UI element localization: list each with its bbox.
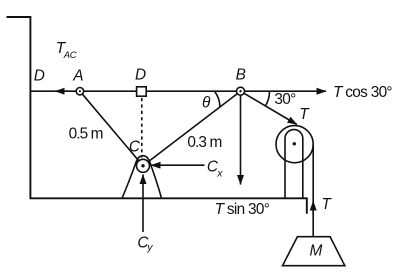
svg-text:x: x bbox=[216, 167, 223, 179]
support arch under C bbox=[122, 156, 162, 199]
svg-text:T sin 30°: T sin 30° bbox=[215, 201, 270, 218]
svg-text:30°: 30° bbox=[274, 91, 296, 108]
svg-text:θ: θ bbox=[202, 94, 211, 111]
dot at C bbox=[141, 164, 144, 167]
wall and base frame bbox=[7, 17, 307, 214]
svg-text:M: M bbox=[310, 242, 323, 259]
30 deg angle arc at B bbox=[265, 91, 269, 106]
rope from pulley down to mass bbox=[312, 144, 314, 237]
pin circle at C bbox=[137, 159, 150, 172]
svg-text:B: B bbox=[236, 66, 246, 83]
pulley bracket bbox=[285, 130, 303, 199]
svg-text:T cos 30°: T cos 30° bbox=[333, 84, 392, 101]
dashed line from D square to C bbox=[141, 98, 143, 158]
rope tension arrow T (up) bbox=[312, 201, 314, 215]
beam line (ceiling) with right arrow T cos 30 bbox=[30, 90, 326, 92]
pin circle at A bbox=[76, 88, 83, 95]
Cx force arrow bbox=[151, 164, 205, 166]
rope B to pulley with arrow T bbox=[241, 91, 297, 124]
mass M block bbox=[283, 237, 345, 266]
dot at A bbox=[79, 90, 81, 92]
pin circle at B bbox=[237, 87, 245, 95]
svg-text:D: D bbox=[135, 67, 146, 84]
member A-C bbox=[80, 91, 143, 166]
dot at B bbox=[239, 90, 241, 92]
svg-text:A: A bbox=[72, 68, 83, 85]
member B-C bbox=[143, 91, 241, 166]
svg-text:0.3 m: 0.3 m bbox=[187, 134, 221, 151]
theta angle arc at B bbox=[215, 91, 220, 107]
roller square at D bbox=[137, 87, 147, 96]
Cy force arrow bbox=[142, 175, 144, 233]
left arrow D on beam bbox=[55, 90, 68, 92]
svg-text:T: T bbox=[299, 106, 310, 123]
svg-text:y: y bbox=[146, 242, 153, 254]
svg-text:C: C bbox=[129, 138, 141, 155]
pulley axle dot bbox=[293, 142, 296, 145]
svg-text:0.5 m: 0.5 m bbox=[69, 126, 103, 143]
svg-text:T: T bbox=[321, 196, 332, 213]
svg-text:AC: AC bbox=[63, 50, 77, 61]
pulley wheel bbox=[276, 126, 313, 163]
svg-text:D: D bbox=[34, 68, 45, 85]
force arrow T sin 30 (down from B) bbox=[240, 96, 242, 185]
